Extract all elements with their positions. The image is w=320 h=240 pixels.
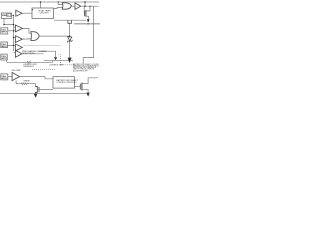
zener tab — [68, 20, 72, 23]
wire sense resistor right — [28, 84, 35, 87]
node rail reference — [13, 15, 15, 51]
svg-text:SENSE: SENSE — [24, 80, 31, 82]
wire below box1 — [4, 19, 14, 25]
svg-text:THRESHOLD: THRESHOLD — [23, 66, 35, 68]
wire M1 source — [86, 16, 89, 19]
node junction dots — [40, 1, 42, 3]
comparator U8 — [12, 73, 19, 81]
wire box1 output — [12, 14, 14, 16]
wire bottom rail — [0, 93, 87, 95]
dotted line comparator C output — [24, 45, 62, 47]
transistor M2 gate bar — [79, 84, 81, 90]
wire comparator1 output to delay box — [22, 12, 32, 14]
transistor M3 channel bracket — [36, 86, 38, 93]
wire right rail — [83, 6, 93, 63]
transistor M1 channel bar — [85, 10, 87, 17]
wire M2 drain to right edge — [82, 78, 98, 84]
svg-text:DETECT MODE: DETECT MODE — [22, 53, 35, 55]
comparator U5 — [15, 36, 22, 43]
svg-text:INPUT: INPUT — [1, 32, 8, 34]
arrow ground M2 — [86, 93, 89, 97]
dashed boundary vertical — [60, 54, 62, 65]
box U1 voltage reference — [1, 13, 11, 18]
wire comparator B output to gate G1 — [22, 38, 30, 40]
transistor M2 channel bar — [81, 83, 83, 91]
wire comparator E output to control box — [20, 77, 54, 79]
zener diode ZD1 — [68, 37, 72, 41]
wire box2 output — [8, 30, 16, 32]
wire zener stem upper — [69, 23, 71, 37]
wire main bus upper — [44, 59, 73, 61]
wire bus step — [52, 60, 54, 62]
buffer U2 — [75, 3, 81, 9]
svg-text:INPUT: INPUT — [1, 58, 8, 60]
arrow M1 source — [87, 19, 90, 22]
resistor R1 — [27, 62, 31, 64]
wire comparator A output to gate G1 — [22, 28, 30, 33]
wire control box to M2 gate — [75, 85, 81, 87]
wire box5 to comparator E — [8, 75, 12, 77]
wire comparator D output — [22, 53, 44, 55]
wire M3 gate to control box — [39, 88, 53, 90]
box battery disconnect control — [53, 77, 75, 88]
wire gate G1 output to zener — [39, 35, 69, 37]
box cell5 input — [1, 74, 8, 80]
wire top bus — [0, 1, 99, 3]
wire top bus to gate G2 upper input — [58, 2, 62, 5]
arrow comparator D to bus — [54, 57, 57, 60]
wire gate G2 output — [71, 5, 75, 7]
box cell2 input — [1, 28, 8, 34]
comparator U6 — [15, 44, 22, 51]
dashed boundary bottom — [61, 64, 74, 66]
wire rail stub comparator B — [14, 37, 16, 39]
wire drop to delay box — [40, 2, 42, 8]
comparator U4 — [15, 25, 22, 32]
wire delay box to gate G2 lower input — [54, 6, 63, 9]
wire buffer output down to M1 gate — [83, 6, 85, 13]
transistor M1 gate bar — [84, 11, 86, 17]
wire precharge label to bus — [39, 51, 56, 57]
wire box4 to bus — [6, 60, 8, 62]
wire rail stub comparator A — [14, 26, 16, 28]
svg-text:INPUT: INPUT — [1, 46, 8, 48]
wire box3 output — [8, 44, 16, 46]
svg-text:CONTROL CIRCUITRY: CONTROL CIRCUITRY — [57, 82, 78, 84]
wire vertical x85 top — [84, 2, 86, 6]
comparator U3 — [16, 10, 22, 16]
transistor M3 gate bar — [38, 87, 40, 92]
arrow zener to bus — [68, 58, 72, 63]
wire M2 source — [82, 89, 88, 92]
gate G1 — [31, 32, 40, 41]
arrow ground M3 — [34, 94, 38, 98]
wire sense resistor left — [16, 80, 21, 83]
resistor R2 — [21, 83, 28, 85]
wire zener stem lower — [69, 41, 71, 58]
wire zener top rail — [54, 19, 86, 21]
comparator U7 — [15, 50, 22, 57]
wire M1 drain — [86, 6, 90, 11]
svg-text:INPUT: INPUT — [1, 78, 8, 80]
svg-text:CONTROL BUS: CONTROL BUS — [49, 65, 64, 67]
box cell4 input — [1, 54, 7, 60]
box cell3 input — [1, 42, 8, 48]
wire pack minus mid — [74, 23, 100, 25]
svg-text:CHG PUMP: CHG PUMP — [12, 70, 22, 72]
wire buffer U2 output to right edge — [81, 5, 99, 7]
gate G2 — [62, 3, 71, 9]
wire main bus lower — [7, 61, 27, 63]
box delay timer — [32, 8, 54, 19]
wire main bus lower right part — [31, 61, 53, 63]
dashed boundary lower left — [32, 68, 56, 70]
svg-text:CIRCUITS: CIRCUITS — [40, 13, 50, 15]
